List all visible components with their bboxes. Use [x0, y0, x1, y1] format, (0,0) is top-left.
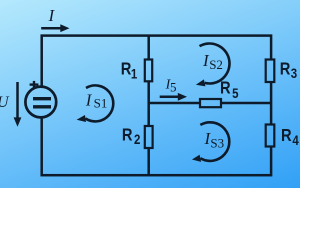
svg-text:1: 1 — [131, 67, 137, 82]
svg-text:R: R — [122, 125, 133, 144]
svg-text:S2: S2 — [209, 57, 223, 72]
svg-text:3: 3 — [291, 66, 297, 81]
svg-text:S1: S1 — [94, 96, 108, 111]
svg-text:2: 2 — [134, 132, 140, 147]
svg-text:R: R — [280, 59, 291, 78]
svg-text:S3: S3 — [210, 136, 224, 151]
svg-text:4: 4 — [292, 133, 298, 148]
svg-text:5: 5 — [170, 80, 177, 95]
svg-text:R: R — [121, 60, 132, 79]
svg-text:R: R — [281, 126, 292, 145]
svg-text:U: U — [0, 94, 10, 111]
svg-text:R: R — [220, 79, 231, 98]
svg-text:5: 5 — [232, 86, 238, 101]
